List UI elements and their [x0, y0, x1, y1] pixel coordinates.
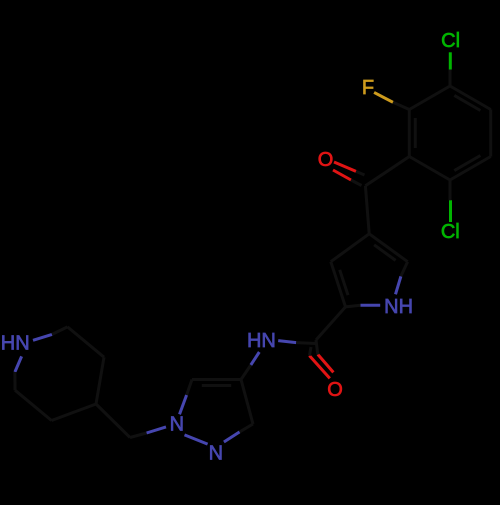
svg-text:O: O: [327, 379, 343, 401]
svg-text:HN: HN: [1, 332, 30, 354]
svg-text:N: N: [209, 442, 223, 464]
svg-text:NH: NH: [384, 296, 413, 318]
svg-text:N: N: [170, 414, 184, 436]
svg-text:Cl: Cl: [441, 221, 460, 243]
svg-text:HN: HN: [247, 330, 276, 352]
svg-text:O: O: [318, 149, 334, 171]
svg-text:F: F: [362, 77, 374, 99]
svg-text:Cl: Cl: [441, 30, 460, 52]
